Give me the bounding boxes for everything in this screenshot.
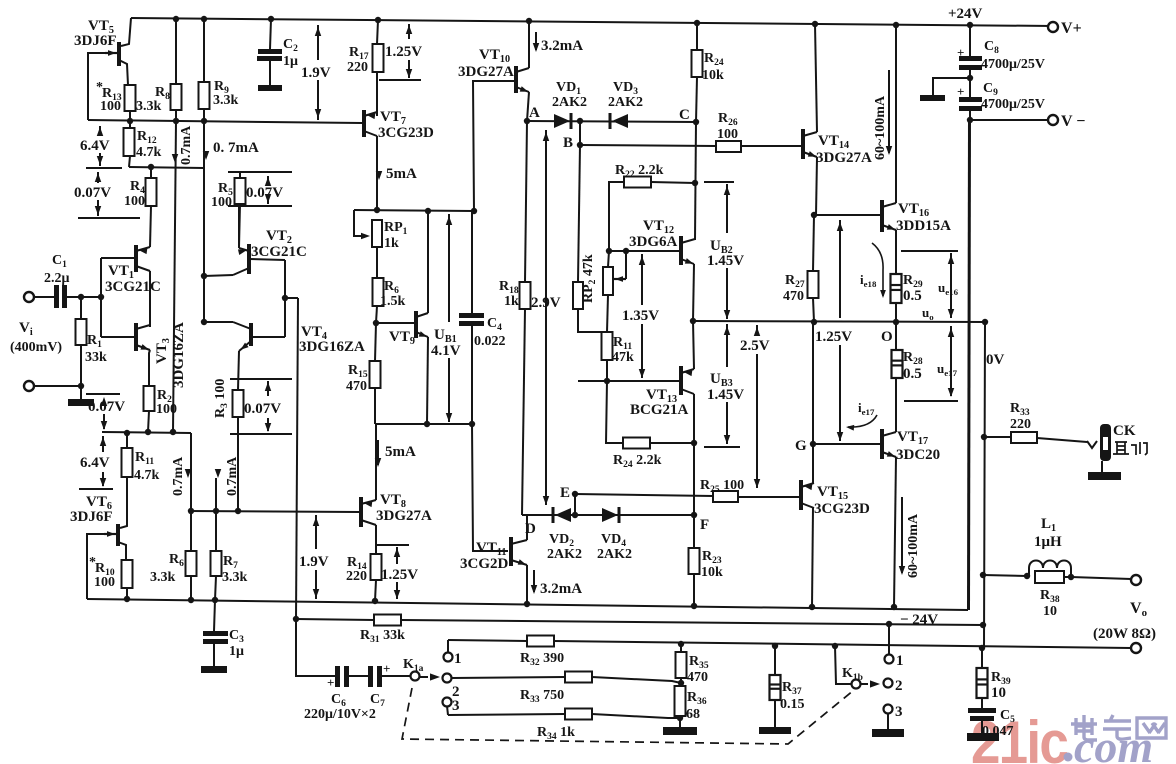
wire VT9 base wire xyxy=(376,322,414,324)
wire R1 bottom lead xyxy=(80,345,82,386)
wire C7 out xyxy=(382,675,411,677)
svg-text:47k: 47k xyxy=(612,350,634,365)
wire C4 bottom lead xyxy=(471,326,473,424)
node node R11b top xyxy=(124,430,130,436)
wire R3 bottom lead xyxy=(237,417,239,511)
svg-text:0.7mA: 0.7mA xyxy=(171,456,186,496)
resistor R6b xyxy=(186,551,197,576)
node node R7 rail xyxy=(212,597,218,603)
transistor VT12 xyxy=(679,236,683,265)
wire K1b c1 stub xyxy=(888,624,890,654)
RP2 wiper xyxy=(614,278,626,280)
wire RP2 wiper wire xyxy=(625,251,627,279)
transistor VT3 xyxy=(134,323,138,351)
resistor R27 xyxy=(808,271,819,298)
node node VT17 rail xyxy=(891,604,897,610)
node node wiper xyxy=(623,248,629,254)
svg-text:0.7mA: 0.7mA xyxy=(179,125,194,165)
diode VD4 xyxy=(602,508,618,522)
resistor R17 xyxy=(373,44,384,72)
node node E bottom xyxy=(572,512,578,518)
svg-text:1.25V: 1.25V xyxy=(815,329,852,345)
resistor R11 xyxy=(602,332,613,360)
svg-text:1μH: 1μH xyxy=(1034,534,1062,550)
wire VT8 collector xyxy=(375,424,377,500)
wire RP2a bottom xyxy=(578,309,606,332)
svg-text:4.1V: 4.1V xyxy=(431,343,461,359)
3.2mA top line xyxy=(535,32,537,50)
svg-text:6.4V: 6.4V xyxy=(80,138,110,154)
node node R39 top xyxy=(979,645,985,651)
switch K1b contact2 xyxy=(884,679,893,688)
node node G xyxy=(810,441,816,447)
wire VT12 collector xyxy=(694,239,696,240)
terminal Vo- xyxy=(1131,643,1141,653)
node node col176 xyxy=(170,429,176,435)
watermark dianzi xyxy=(1071,715,1166,740)
svg-text:+: + xyxy=(957,84,964,99)
svg-text:10k: 10k xyxy=(702,68,724,83)
svg-text:3CG23D: 3CG23D xyxy=(378,125,434,141)
svg-text:0.07V: 0.07V xyxy=(88,399,125,415)
node node R23 rail xyxy=(691,603,697,609)
resistor R5 xyxy=(235,178,246,204)
wire hp gnd lead xyxy=(1101,461,1103,472)
transistor VT14 xyxy=(801,129,805,159)
capacitor C3 xyxy=(203,631,228,636)
svg-text:− 24V: − 24V xyxy=(900,612,938,628)
node C8C9 mid xyxy=(967,75,973,81)
node node K1b fb xyxy=(886,621,892,627)
svg-text:470: 470 xyxy=(783,289,804,304)
wire R23 top lead xyxy=(693,515,695,548)
wire mid to gnd xyxy=(933,78,970,95)
svg-text:1.25V: 1.25V xyxy=(381,567,418,583)
wire R5 bottom lead xyxy=(239,204,240,247)
watermark dot xyxy=(1064,753,1073,762)
wire R12 bottom xyxy=(129,156,130,167)
current 60-100mA top xyxy=(888,70,890,153)
node fb node xyxy=(282,295,288,301)
wire R22 right lead xyxy=(651,182,695,183)
node rail-C8 xyxy=(967,22,973,28)
RP1 wiper arrow xyxy=(361,233,370,239)
svg-text:1: 1 xyxy=(454,651,462,667)
svg-text:3DG27A: 3DG27A xyxy=(816,150,872,166)
node input node xyxy=(78,294,84,300)
node rail-R9 xyxy=(201,16,207,22)
node node VT9 base xyxy=(373,320,379,326)
resistor R10 xyxy=(122,560,133,588)
wire right base column xyxy=(284,260,286,337)
node node VT9c xyxy=(425,208,431,214)
wire VT4 base wire xyxy=(251,336,285,338)
node input gnd node xyxy=(78,383,84,389)
node node R7 line xyxy=(213,508,219,514)
svg-text:0.07V: 0.07V xyxy=(74,185,111,201)
current arrow R9 col xyxy=(203,151,209,160)
wire C5 bottom lead xyxy=(981,721,983,733)
curve ie17 xyxy=(848,415,877,427)
wire R6 bottom lead xyxy=(376,306,377,323)
wire VT12 emitter xyxy=(693,264,694,321)
tick R5 top xyxy=(228,171,292,173)
svg-text:0.15: 0.15 xyxy=(780,697,805,712)
svg-text:1.9V: 1.9V xyxy=(301,65,331,81)
wire emitter line 424 xyxy=(375,423,472,425)
wire RP2 top lead xyxy=(608,251,609,267)
svg-text:3.3k: 3.3k xyxy=(136,99,162,114)
wire R32 line a xyxy=(448,640,527,641)
wire C4 top lead xyxy=(471,211,473,315)
svg-text:3.3k: 3.3k xyxy=(150,570,176,585)
wire rail corner to VT5 drain xyxy=(121,18,131,46)
resistor R24t xyxy=(692,50,703,77)
measure 0.07V bottom-left xyxy=(103,397,105,399)
svg-text:+: + xyxy=(327,675,334,690)
wire R10 bottom lead xyxy=(126,588,128,599)
transistor VT5 xyxy=(117,42,121,66)
svg-text:0.5: 0.5 xyxy=(903,366,922,382)
resistor R18 xyxy=(520,282,531,309)
wire R6p top lead xyxy=(190,511,192,551)
wire R33 line b xyxy=(592,677,681,683)
wire +24V top rail xyxy=(131,18,1053,26)
node node R27 out xyxy=(811,319,817,325)
wire L1 line b xyxy=(1064,576,1071,578)
tick UB2 top xyxy=(704,181,734,183)
switch K1a contact3 xyxy=(443,698,452,707)
wire R14 bottom lead xyxy=(375,580,376,601)
wire VT5 gate loop xyxy=(88,53,105,120)
wire VT15 collector xyxy=(812,444,814,483)
resistor R15 xyxy=(370,361,381,388)
wire R18 column bottom xyxy=(522,309,525,515)
ground C3 xyxy=(201,666,227,673)
measure 1.9V arrows xyxy=(317,25,319,60)
wire R26 out xyxy=(741,145,801,147)
svg-text:3: 3 xyxy=(895,704,903,720)
switch K1b arrow xyxy=(861,683,868,685)
measure ue17 xyxy=(950,326,952,396)
node rail-R24 xyxy=(694,20,700,26)
wire R34 line b xyxy=(592,714,680,718)
svg-text:0.7mA: 0.7mA xyxy=(225,456,240,496)
svg-text:3CG21C: 3CG21C xyxy=(105,279,161,295)
transistor VT17 xyxy=(880,429,884,459)
svg-text:R34 1k: R34 1k xyxy=(537,725,575,742)
node node R38 right xyxy=(1068,574,1074,580)
wire R25 out xyxy=(738,496,799,498)
svg-text:R25 100: R25 100 xyxy=(700,478,744,495)
wire R2 bottom lead xyxy=(148,411,149,432)
svg-text:3.3k: 3.3k xyxy=(222,570,248,585)
wire VT4 collector wire xyxy=(204,321,233,323)
transistor VT4 xyxy=(249,323,253,346)
wire VT13 collector xyxy=(693,394,695,443)
capacitor C5 xyxy=(968,708,996,713)
diode VD2 xyxy=(552,507,555,523)
node node fb line xyxy=(293,616,299,622)
capacitor C6 xyxy=(335,666,340,687)
transistor VT10 xyxy=(514,66,518,93)
wire R5 top lead xyxy=(239,172,241,178)
wire R35 top lead xyxy=(680,644,682,652)
node rail-VT16 xyxy=(893,22,899,28)
resistor R31 xyxy=(374,615,401,626)
wire VT11 base feed xyxy=(472,424,508,551)
inductor L1 xyxy=(1029,561,1071,577)
measure UB3 xyxy=(726,324,728,367)
wire R27 bottom lead xyxy=(813,298,814,322)
node node hp tap xyxy=(981,434,987,440)
wire B column xyxy=(578,145,580,282)
wire col R6p upper xyxy=(190,433,192,511)
wire R32 line b xyxy=(554,641,1131,648)
svg-text:3.2mA: 3.2mA xyxy=(541,38,583,54)
measure 6.4V top xyxy=(99,126,101,136)
svg-text:0V: 0V xyxy=(986,352,1005,368)
terminal Vo+ xyxy=(1131,575,1141,585)
svg-text:2: 2 xyxy=(895,678,903,694)
resistor R7 xyxy=(211,551,222,576)
capacitor C9 xyxy=(959,97,982,102)
node node R13/R12 xyxy=(127,118,133,124)
ground R36 xyxy=(663,727,697,735)
terminal input+ xyxy=(24,292,34,302)
node node RP1 xyxy=(374,207,380,213)
switch gang dashes xyxy=(402,688,854,744)
ground K1b xyxy=(872,729,904,737)
wire feedback line xyxy=(296,619,374,620)
node node A xyxy=(524,118,530,124)
wire R24 bottom lead xyxy=(696,77,697,122)
curve ie18 xyxy=(872,243,883,296)
svg-text:60~100mA: 60~100mA xyxy=(873,95,888,160)
wire R4 bottom lead xyxy=(150,206,151,247)
svg-text:470: 470 xyxy=(346,379,367,394)
node node R24b right xyxy=(691,440,697,446)
wire R24b right lead xyxy=(650,442,694,444)
wire R27 top lead xyxy=(813,215,814,271)
ground R37 xyxy=(759,727,791,734)
svg-text:100: 100 xyxy=(717,127,738,142)
resistor R12 xyxy=(124,128,135,156)
wire R24b left lead xyxy=(606,381,623,443)
transistor VT11 xyxy=(509,537,513,566)
node node O xyxy=(893,319,899,325)
resistor R26 xyxy=(716,141,741,152)
resistor R37 xyxy=(770,675,781,700)
measure 0.07V bottom-right xyxy=(267,381,269,396)
wire RP1 bottom lead xyxy=(376,247,378,278)
measure 1.25V bottom xyxy=(396,547,398,564)
svg-text:4.7k: 4.7k xyxy=(136,145,162,160)
svg-text:O: O xyxy=(881,329,893,345)
wire VT2 collector wire xyxy=(204,275,233,276)
svg-text:1.35V: 1.35V xyxy=(622,308,659,324)
wire VT13 emitter xyxy=(693,321,694,369)
wire L1 line a xyxy=(983,575,1027,576)
wire VT17 collector xyxy=(895,378,897,432)
resistor R1 xyxy=(76,319,87,345)
node node R10 rail xyxy=(124,596,130,602)
resistor R11b xyxy=(122,448,133,477)
svg-text:1: 1 xyxy=(896,653,904,669)
resistor R33hp xyxy=(1011,432,1037,443)
wire VT11 collector xyxy=(526,515,528,540)
wire R22 left lead xyxy=(609,182,624,251)
svg-text:6.4V: 6.4V xyxy=(80,455,110,471)
transistor VT6 xyxy=(116,524,120,546)
svg-text:1.5k: 1.5k xyxy=(380,294,406,309)
wire R11b top lead xyxy=(126,433,128,448)
node node VT4 coll xyxy=(201,319,207,325)
wire R33 line a xyxy=(452,677,565,678)
resistor R29 xyxy=(891,274,902,303)
wire RP1 node line xyxy=(354,210,474,211)
svg-text:0.07V: 0.07V xyxy=(244,401,281,417)
ground C5 xyxy=(967,733,999,741)
measure UB2 xyxy=(726,184,728,233)
capacitor C2 xyxy=(258,49,282,54)
tick 1.25V bottom xyxy=(377,544,409,546)
svg-text:2AK2: 2AK2 xyxy=(552,95,587,110)
node node L1 left xyxy=(980,572,986,578)
wire B tap xyxy=(579,121,581,145)
resistor R24b xyxy=(623,438,650,449)
wire R17 bottom lead xyxy=(376,72,378,116)
wire VT1 coll to VT3 coll xyxy=(149,271,151,327)
resistor R28 xyxy=(892,350,903,378)
resistor R4 xyxy=(146,178,157,206)
wire E tap xyxy=(574,494,576,515)
current arrow col216 xyxy=(215,469,221,478)
wire VT6 gate loop xyxy=(87,534,104,599)
svg-text:1k: 1k xyxy=(504,294,519,309)
wire feedback line2 xyxy=(401,620,983,625)
svg-text:100: 100 xyxy=(94,575,115,590)
measure 2.5V xyxy=(756,325,758,333)
wire R1 top lead xyxy=(80,297,82,319)
resistor R2 xyxy=(144,386,155,411)
wire VT7 collector xyxy=(376,136,378,211)
wire R23 bottom lead xyxy=(693,574,695,606)
wire C1 out xyxy=(67,296,101,298)
node node VT2 coll xyxy=(201,273,207,279)
resistor R23 xyxy=(689,548,700,574)
wire VT13 base line xyxy=(578,380,679,382)
svg-text:0.5: 0.5 xyxy=(903,288,922,304)
wire contact3 stub xyxy=(447,706,448,715)
node node fb out xyxy=(980,622,986,628)
transistor VT8 xyxy=(359,497,363,527)
svg-text:A: A xyxy=(529,105,540,121)
current 60-100mA bottom xyxy=(901,497,903,573)
wire R15 top lead xyxy=(375,323,376,361)
node base node xyxy=(98,294,104,300)
svg-text:+: + xyxy=(383,661,390,676)
svg-text:3DG16ZA: 3DG16ZA xyxy=(171,322,187,388)
wire hp line b xyxy=(1037,438,1087,442)
wire VT10 collector xyxy=(528,21,530,68)
transistor VT13 xyxy=(679,366,683,395)
node rail-VT14 xyxy=(812,21,818,27)
wire R11b bottom lead xyxy=(120,477,127,528)
node node mid out xyxy=(690,318,696,324)
wire bias line 432 xyxy=(102,432,191,433)
measure 1.25V top xyxy=(408,24,410,39)
node node B top xyxy=(577,118,583,124)
node node VT10b xyxy=(471,208,477,214)
svg-text:(400mV): (400mV) xyxy=(10,340,62,355)
wire output drop xyxy=(984,322,985,648)
svg-text:220: 220 xyxy=(346,569,367,584)
wire RP1 wiper loop xyxy=(354,210,366,236)
wire VT16 emitter xyxy=(895,230,897,274)
wire VT2-VT4 coll column xyxy=(203,276,205,322)
measure 0.07V top-left xyxy=(97,172,99,183)
resistor R33f xyxy=(565,672,592,683)
svg-text:3CG2D: 3CG2D xyxy=(460,556,509,572)
svg-text:G: G xyxy=(795,438,807,454)
svg-text:F: F xyxy=(700,517,709,533)
wire R9 top lead xyxy=(203,19,205,82)
wire VT12 base line xyxy=(609,250,679,252)
wire R9 column down xyxy=(203,121,205,276)
wire C column xyxy=(695,122,696,240)
svg-text:2.2μ: 2.2μ xyxy=(44,271,70,286)
wire R24 top lead xyxy=(696,23,698,50)
svg-text:100: 100 xyxy=(124,194,145,209)
svg-text:0.07V: 0.07V xyxy=(246,185,283,201)
node node E xyxy=(572,491,578,497)
wire R7 bottom lead xyxy=(215,576,216,600)
svg-text:R33 750: R33 750 xyxy=(520,688,564,705)
measure 1.35V xyxy=(641,254,643,305)
wire F column xyxy=(693,443,695,515)
svg-text:+: + xyxy=(957,45,964,60)
resistor R36 xyxy=(675,686,686,716)
transistor VT7 xyxy=(362,110,366,137)
transistor VT2 xyxy=(247,244,251,274)
svg-text:+24V: +24V xyxy=(948,6,983,22)
headphone plug xyxy=(1087,441,1097,448)
potentiometer RP1 xyxy=(372,220,382,247)
potentiometer RP2 xyxy=(603,267,613,295)
wire K1b c3 stub xyxy=(887,714,889,729)
svg-text:60~100mA: 60~100mA xyxy=(906,513,921,578)
node node R22 right xyxy=(692,180,698,186)
svg-text:R22 2.2k: R22 2.2k xyxy=(615,163,664,180)
node node K1b top xyxy=(832,643,838,649)
wire R6p bottom lead xyxy=(190,576,192,599)
wire VT8 emitter xyxy=(375,525,377,554)
svg-text:2AK2: 2AK2 xyxy=(597,547,632,562)
wire feedback column xyxy=(296,298,298,619)
wire R36 bottom lead xyxy=(679,716,681,727)
svg-text:V −: V − xyxy=(1061,113,1085,130)
node node R35 bot xyxy=(678,680,684,686)
svg-text:1μ: 1μ xyxy=(283,54,298,69)
wire VT2 emitter lead xyxy=(238,204,240,248)
wire R4 top lead xyxy=(150,167,152,178)
capacitor C7 xyxy=(368,666,373,687)
wire R8 top lead xyxy=(175,19,177,84)
svg-text:CK: CK xyxy=(1113,423,1136,439)
wire C2 lower lead xyxy=(269,61,271,85)
svg-text:3DG27A: 3DG27A xyxy=(376,508,432,524)
